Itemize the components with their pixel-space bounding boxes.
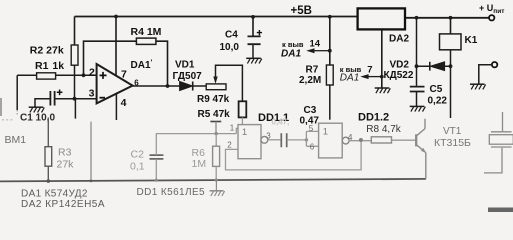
svg-text:1: 1 <box>230 124 235 133</box>
svg-text:DA1: DA1 <box>340 73 359 84</box>
svg-text:С1 10,0: С1 10,0 <box>20 113 55 124</box>
svg-text:DA1: DA1 <box>281 49 301 60</box>
svg-text:27k: 27k <box>57 159 75 171</box>
svg-text:R2 27k: R2 27k <box>30 45 64 57</box>
svg-text:0,1: 0,1 <box>130 161 145 173</box>
svg-text:R5 47k: R5 47k <box>198 109 231 120</box>
svg-text:DD1 К561ЛЕ5: DD1 К561ЛЕ5 <box>137 187 206 198</box>
svg-text:R9 47k: R9 47k <box>197 94 230 105</box>
svg-text:ВМ1: ВМ1 <box>5 134 27 146</box>
svg-text:DA2 КР142ЕН5А: DA2 КР142ЕН5А <box>21 199 105 210</box>
svg-text:K1: K1 <box>465 35 478 46</box>
svg-text:2: 2 <box>89 66 95 78</box>
svg-text:1: 1 <box>323 127 328 138</box>
svg-text:C2: C2 <box>131 149 145 161</box>
svg-text:2,2М: 2,2М <box>299 75 321 86</box>
svg-text:КД522: КД522 <box>384 70 414 81</box>
svg-text:10,0: 10,0 <box>220 42 240 53</box>
svg-text:3: 3 <box>266 132 271 141</box>
svg-text:R1 1k: R1 1k <box>35 60 64 72</box>
svg-text:14: 14 <box>310 39 321 50</box>
svg-text:+5В: +5В <box>291 5 312 17</box>
svg-text:C3: C3 <box>304 105 317 116</box>
svg-text:КТ315Б: КТ315Б <box>434 137 471 149</box>
svg-text:5: 5 <box>309 124 314 133</box>
svg-text:C4: C4 <box>225 30 238 41</box>
svg-text:VD2: VD2 <box>390 60 410 71</box>
svg-text:VT1: VT1 <box>443 126 462 137</box>
svg-text:C5: C5 <box>430 84 443 95</box>
svg-text:1M: 1M <box>192 158 207 170</box>
svg-text:7: 7 <box>121 69 127 81</box>
svg-text:0,22: 0,22 <box>428 96 448 107</box>
svg-text:R3: R3 <box>58 147 72 159</box>
svg-text:R7: R7 <box>306 65 319 76</box>
svg-text:DD1.2: DD1.2 <box>358 112 389 124</box>
svg-text:1: 1 <box>242 127 247 138</box>
svg-text:0,47,: 0,47, <box>272 118 290 127</box>
svg-text:DA2: DA2 <box>389 34 409 45</box>
svg-text:4: 4 <box>121 97 127 109</box>
svg-text:DA1': DA1' <box>131 58 153 72</box>
svg-text:2: 2 <box>227 141 232 150</box>
svg-text:7: 7 <box>367 64 372 75</box>
svg-text:6: 6 <box>310 143 315 152</box>
svg-text:3: 3 <box>89 88 95 100</box>
svg-text:VD1: VD1 <box>175 60 195 71</box>
svg-text:R8 4,7k: R8 4,7k <box>366 124 401 135</box>
svg-text:R4 1M: R4 1M <box>131 26 162 38</box>
svg-text:ГД507: ГД507 <box>173 71 203 82</box>
